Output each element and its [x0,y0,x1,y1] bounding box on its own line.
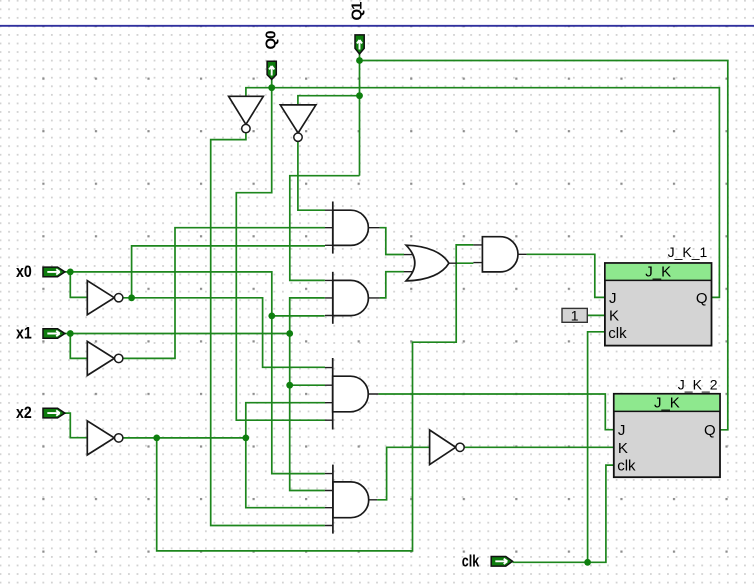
svg-text:Q1: Q1 [349,2,366,21]
wire AND5 output to NOT4 input [377,447,429,500]
svg-text:J_K: J_K [645,264,671,281]
svg-text:1: 1 [571,308,579,324]
svg-text:K: K [609,308,619,325]
pin stubs AND1 [325,210,380,245]
wire net x1: up to AND2 input 2 [290,298,325,334]
inverter NOT1 (Q0 bar, pointing down) [229,96,264,133]
input pin clk [491,557,512,567]
blue border line [0,25,754,27]
pin stubs AND2 [325,280,380,315]
wire net x2inv: up to AND4 input 3 [246,403,325,438]
svg-text:J_K: J_K [654,395,680,412]
input pin x1 [43,329,65,339]
pin stubs AND4 [325,368,378,421]
node x2inv junction B [242,435,249,442]
input pin x0 [43,267,65,277]
svg-text:Q: Q [696,290,708,307]
svg-text:J_K_1: J_K_1 [668,244,708,260]
wire net Q0: down run to AND4 input 4 [236,88,325,421]
wire net x2: pin to NOT-x2 input [65,413,87,438]
output pin Q1 [355,35,364,54]
node AND4 in2 junction [286,382,293,389]
and-gate AND1 body [333,202,369,254]
svg-text:x2: x2 [16,404,32,422]
svg-text:J: J [618,422,626,439]
node Q0 junction [268,84,275,91]
inverter NOT4 (before FF2 K) [430,430,465,465]
svg-text:Q: Q [704,422,716,439]
wire clk pin run [513,465,614,562]
wire net x0: branch to AND2 input 3 [272,315,325,317]
node Q1 to NOT2 junction [356,92,363,99]
wire net Q0: junction to NOT1 input [246,88,272,97]
node x1 pin junction [67,330,74,337]
wire OR output to AND3 input 2 [457,262,474,264]
wire net Q0: junction to FF1 Q output [272,88,720,298]
inverter NOT-x1 [87,341,123,375]
inverter NOT-x0 [87,281,123,315]
wire net Q1inv: NOT2 output to AND1 input 1 [298,141,325,210]
wire net x0inv: bubble to AND4 input 1 [123,298,325,368]
wire AND2 output to OR input 2 [380,272,404,298]
svg-text:x1: x1 [16,324,32,342]
pin stubs AND5 [325,474,377,526]
or-gate OR1 body [406,245,449,281]
svg-text:clk: clk [617,458,636,475]
svg-text:x0: x0 [16,263,32,281]
node x2inv junction A [153,435,160,442]
node x0 pin junction [67,269,74,276]
pin stubs OR1 [404,255,457,272]
constant 1 [562,308,587,324]
svg-text:K: K [618,440,628,457]
output pin Q0 [267,61,276,79]
wire net x0: pin to NOT-x0 input [65,272,87,298]
wire net Q1: branch to NOT2 input [298,96,360,105]
GATE PIN STUBS [325,210,527,525]
and-gate AND5 body [333,465,369,534]
wire net x0: main run to AND5 input 1 [70,272,325,474]
flip-flop U2 J_K_2 [614,376,720,477]
wire AND4 output to FF2 J [378,394,613,430]
wire const 1 to FF1 K [587,314,605,316]
and-gate AND3 body [482,237,518,272]
wire net x1: pin branch to NOT-x1 input [70,334,87,359]
inverter NOT2 (Q1 bar, pointing down) [280,105,316,141]
wire net x2inv: long run to AND3 input 1 [157,245,474,551]
svg-text:clk: clk [462,553,480,571]
wire net x2inv: bubble along to junction [123,437,246,439]
wire AND1 output to OR input 1 [380,228,404,255]
svg-text:J: J [609,290,617,307]
flip-flop U1 J_K_1 [605,244,712,346]
inverter NOT-x2 [87,421,123,455]
wire net x1: pin to junction and to vertical [65,333,290,335]
wire net x1: down to AND5 input 2 [290,334,325,491]
node x1 vertical junction [286,330,293,337]
wire net Q1: to AND2 input 1 [290,176,360,281]
pin stubs AND3 [473,245,526,263]
svg-text:J_K_2: J_K_2 [678,376,718,392]
svg-text:Q0: Q0 [263,31,280,50]
wire net x2inv: down to AND5 input 3 [246,438,325,508]
wire NOT4 output to FF2 K [465,446,614,448]
node clk junction [584,559,591,566]
wire net Q0inv: NOT1 output to AND5 input 4 [211,133,325,526]
wire net Q1: pin to junction [359,54,361,61]
wire net x1: branch to AND4 input 2 [290,384,325,386]
GATES [87,96,518,533]
wire net Q0: pin to junction [271,79,273,87]
and-gate AND2 body [333,272,369,324]
input pin x2 [43,408,65,418]
and-gate AND4 body [333,358,369,430]
wire clk to FF1 clk [588,332,605,563]
wire net x0inv: branch up to AND1 input 3 [132,246,325,298]
node x0 to AND2 junction [268,313,275,320]
node x0inv junction [128,294,135,301]
wire net x1inv: bubble to AND1 input 2 [123,228,325,359]
wire net Q1: vertical run down [359,61,361,176]
svg-text:clk: clk [608,325,627,342]
node Q1 junction [356,57,363,64]
wire AND3 output to FF1 J [527,254,605,297]
wire net Q1: junction to FF2 Q output [360,61,728,430]
